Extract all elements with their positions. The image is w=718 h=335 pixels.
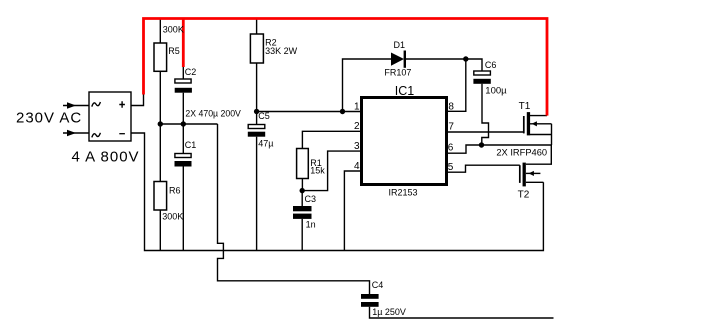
wire: HV+ rail highlight (red) <box>144 19 548 116</box>
wire: midpoint to T2 drain <box>526 145 551 164</box>
capacitor C3 bottom lead <box>301 219 303 251</box>
wire: C6 bottom jog to VS node <box>482 84 489 145</box>
svg-text:T2: T2 <box>518 190 530 201</box>
svg-text:100µ: 100µ <box>485 86 507 97</box>
capacitor C1 bottom lead <box>182 167 184 251</box>
wire: pin 5 LO to T2 gate <box>447 165 520 172</box>
svg-text:D1: D1 <box>394 40 406 50</box>
wire: pin 3 to CT node <box>302 151 362 191</box>
resistor R2 top lead <box>256 19 258 34</box>
svg-text:6: 6 <box>448 142 454 153</box>
op-amp U1: IC1 IR2153 body <box>362 98 447 185</box>
resistor R5 bottom lead <box>159 71 161 124</box>
bridge rectifier B1 body <box>89 92 131 141</box>
resistor R2 bottom lead <box>256 63 258 125</box>
transistor T1 gate bar <box>523 116 525 133</box>
capacitor C4 plate 2 <box>361 302 379 307</box>
wire: D1 anode from pin1 <box>343 59 392 112</box>
svg-text:5: 5 <box>448 162 454 173</box>
diode D1 cathode bar <box>404 51 406 68</box>
transistor T1 channel bar <box>527 112 530 135</box>
node: junction R5/R6 midpoint <box>158 121 163 126</box>
svg-text:8: 8 <box>448 101 454 112</box>
node: junction C6/pin6/VS <box>479 142 484 147</box>
node: T1 body diode arrow <box>532 121 537 126</box>
wire: pin 4 COM to ground bus <box>344 171 361 251</box>
resistor R6 top lead is rail junction <box>159 124 161 182</box>
bridge rectifier B1 AC symbol top <box>92 102 101 107</box>
wire: T1 source lead <box>530 134 552 136</box>
svg-text:15k: 15k <box>310 166 325 176</box>
node: AC input bottom arrow <box>67 130 76 137</box>
resistor R2 <box>250 34 263 63</box>
transistor T2 channel bar <box>523 163 526 187</box>
svg-text:3: 3 <box>354 141 360 152</box>
svg-text:2X 470µ 200V: 2X 470µ 200V <box>185 108 241 119</box>
resistor R6 <box>154 182 167 211</box>
svg-text:300K: 300K <box>163 25 184 35</box>
svg-text:C4: C4 <box>372 280 384 290</box>
svg-text:C1: C1 <box>185 140 197 150</box>
wire: bridge + output to HV rail <box>131 92 144 106</box>
svg-text:R6: R6 <box>169 186 181 196</box>
svg-text:2: 2 <box>354 121 360 132</box>
wire: pin 7 HO to T1 gate <box>447 131 524 133</box>
capacitor C1 top lead <box>182 124 184 154</box>
wire: bridge - output down to ground bus <box>131 133 543 251</box>
resistor R5 <box>154 43 167 71</box>
capacitor C5 positive plate <box>248 125 265 129</box>
capacitor C2 negative plate <box>175 88 192 93</box>
bridge rectifier B1 plus terminal <box>119 101 125 107</box>
svg-text:33K 2W: 33K 2W <box>265 46 298 56</box>
node: junction C1/C2 midpoint <box>181 121 186 126</box>
resistor R6 bottom lead <box>159 210 161 251</box>
svg-text:1: 1 <box>354 101 360 112</box>
svg-text:300K: 300K <box>162 212 183 222</box>
node: T2 body diode arrow <box>529 171 534 176</box>
svg-text:R5: R5 <box>168 46 180 56</box>
capacitor C5 bottom lead <box>256 137 258 251</box>
svg-text:4 A 800V: 4 A 800V <box>72 149 140 166</box>
svg-text:IR2153: IR2153 <box>389 188 418 198</box>
svg-text:47µ: 47µ <box>258 139 273 149</box>
wire: T2 body lead <box>526 172 541 174</box>
wire: T1 drain lead to HV rail <box>530 115 547 117</box>
capacitor C6 negative plate <box>473 79 490 84</box>
wire: D1 cathode to C6/pin8 <box>405 59 482 71</box>
node: junction D1 anode/pin1 <box>340 109 345 114</box>
capacitor C1 negative plate <box>175 161 192 167</box>
resistor R5 top lead <box>159 19 161 43</box>
svg-text:T1: T1 <box>519 101 531 112</box>
wire: midpoint rail C1/C2 R5/R6 <box>160 123 217 125</box>
wire: pin 6 VS to half-bridge midpoint <box>447 145 552 153</box>
capacitor C2 top lead <box>182 66 184 79</box>
bridge rectifier B1 AC symbol bottom <box>92 133 101 138</box>
svg-text:1µ 250V: 1µ 250V <box>372 307 406 317</box>
capacitor C4 plate 1 <box>361 294 379 299</box>
node: junction R1/C3/pin3 <box>300 188 305 193</box>
svg-text:C6: C6 <box>485 60 497 70</box>
svg-text:FR107: FR107 <box>384 67 411 77</box>
capacitor C2 bottom lead <box>182 93 184 124</box>
svg-text:230V AC: 230V AC <box>16 110 82 127</box>
wire: pin 8 VB to D1 cathode <box>447 59 466 111</box>
svg-text:7: 7 <box>448 122 454 133</box>
svg-text:1n: 1n <box>306 219 316 229</box>
capacitor C3 plate 1 <box>293 206 312 211</box>
wire: midpoint drop with crossover hop to C4 <box>218 124 370 294</box>
node: AC input top arrow <box>67 102 76 109</box>
wire: T2 source lead to ground bus <box>526 181 544 183</box>
node: junction R2/C5/pin1 <box>254 109 259 114</box>
capacitor C1 positive plate <box>175 154 191 158</box>
wire: T1 source/body tie to midpoint <box>551 124 553 145</box>
capacitor C3 plate 2 <box>293 214 312 219</box>
wire: pin 2 to R1 top <box>302 131 361 148</box>
svg-text:IC1: IC1 <box>395 84 415 98</box>
diode D1 <box>391 53 404 66</box>
wire: AC input top lead <box>63 105 89 107</box>
capacitor C2 positive plate <box>175 79 191 83</box>
wire: Vcc node pin1 <box>257 111 362 113</box>
svg-text:C2: C2 <box>185 67 197 77</box>
capacitor C5 negative plate <box>248 132 265 137</box>
bridge rectifier B1 minus terminal <box>119 133 125 135</box>
svg-text:C3: C3 <box>305 194 317 204</box>
transistor T2 gate bar <box>519 165 521 183</box>
svg-text:4: 4 <box>354 161 360 172</box>
capacitor C3 top lead <box>301 191 303 206</box>
capacitor C6 positive plate <box>474 71 491 75</box>
svg-text:2X IRFP460: 2X IRFP460 <box>496 148 547 158</box>
wire: AC input bottom lead <box>63 132 89 134</box>
node: junction D1 cathode/pin8 <box>463 56 468 61</box>
wire: R1 bottom to CT node <box>301 179 303 191</box>
wire: C4 bottom to output rail <box>370 307 554 318</box>
wire: T1 body lead <box>530 123 552 125</box>
svg-text:C5: C5 <box>258 111 270 121</box>
resistor R1 <box>297 149 309 179</box>
